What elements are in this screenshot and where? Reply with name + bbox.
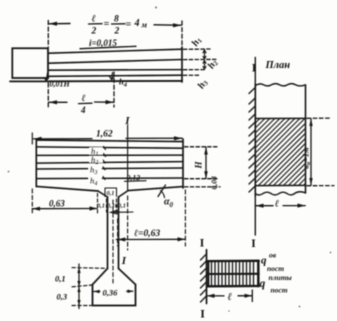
svg-text:0,36: 0,36 <box>103 288 119 298</box>
extension dash x=106.5 <box>106 199 108 212</box>
web left edge <box>107 197 109 269</box>
tick at quarter point <box>110 73 115 80</box>
load band top chord <box>207 260 259 263</box>
svg-text:План: План <box>265 60 291 71</box>
svg-text:h3: h3 <box>196 77 211 91</box>
dimension text l/2 = 8/2 = 4m <box>91 14 148 37</box>
section line I-I lower dashed <box>127 196 129 250</box>
dashed extension right bottom <box>307 185 334 187</box>
chain arrow tick <box>111 210 134 214</box>
dimension l=0.63 (right) <box>116 229 185 242</box>
slab top line <box>36 140 183 142</box>
dashed extension h2 level <box>184 58 217 60</box>
load band right edge <box>257 261 260 286</box>
svg-text:0,01Н: 0,01Н <box>50 80 71 89</box>
tick arrow h1 gap <box>203 50 206 59</box>
svg-text:м: м <box>141 21 148 30</box>
stem dim extension dashes <box>72 267 105 270</box>
svg-text:i=0,015: i=0,015 <box>89 38 117 48</box>
dimension l/2 = 8/2 = 4m line <box>49 22 182 28</box>
left flange underside <box>36 186 98 191</box>
strip right edge <box>305 85 307 193</box>
svg-text:α0: α0 <box>164 197 174 210</box>
web flare right <box>119 269 136 285</box>
support block <box>12 48 48 78</box>
slab layer line 2 <box>36 147 183 148</box>
dimension l/4 line <box>49 100 114 104</box>
slab layer line 4 <box>36 162 183 164</box>
wall hatching ticks <box>249 88 255 193</box>
beam layer line 3 <box>49 69 182 72</box>
svg-text:0,1: 0,1 <box>118 203 126 210</box>
dimension 0.63 (left) <box>32 199 97 211</box>
support baseline <box>10 80 49 82</box>
svg-text:4: 4 <box>134 18 140 29</box>
slab right edge <box>182 139 184 188</box>
svg-text:=: = <box>126 20 132 31</box>
svg-text:1,62: 1,62 <box>96 130 113 140</box>
svg-text:0,63: 0,63 <box>49 199 65 209</box>
dashed extension h3 level <box>184 69 207 71</box>
extension line right (dashed) at x=182 <box>181 21 183 47</box>
slab layer line 3 <box>36 154 183 156</box>
svg-text:ℓ=0,63: ℓ=0,63 <box>134 229 160 239</box>
svg-text:q: q <box>260 278 266 290</box>
svg-text:0,1: 0,1 <box>97 203 105 210</box>
extension dash x=32 lower <box>31 189 33 213</box>
svg-text:I: I <box>200 238 205 250</box>
right flange underside (slope 0.12) <box>128 187 183 191</box>
dashed extension line 4 <box>184 74 201 76</box>
dashed extension h1 level <box>184 48 211 50</box>
strip top break (wavy) <box>255 84 305 86</box>
strip bottom break (wavy) <box>255 192 305 195</box>
beam top line (slope i) <box>49 49 182 53</box>
label 0.36 with arrows <box>94 288 134 298</box>
svg-text:ℓ: ℓ <box>92 14 96 25</box>
wall line <box>206 250 208 304</box>
strip left edge / wall line <box>254 84 256 196</box>
label h4 (section) <box>89 176 102 187</box>
right extension dash mid <box>185 178 219 180</box>
svg-text:0,3: 0,3 <box>57 292 68 302</box>
boxed label 0,1 at web top <box>105 188 117 197</box>
wall hatching ticks <box>201 254 207 302</box>
stem dims 0,1 and 0,3 <box>77 264 80 309</box>
svg-text:I: I <box>200 307 205 321</box>
slab structural top line <box>36 177 183 180</box>
fraction bars <box>89 23 126 25</box>
angle tick alpha0 <box>158 185 166 197</box>
svg-text:I: I <box>121 255 127 267</box>
dimension l (plan) <box>256 198 306 209</box>
svg-text:4: 4 <box>80 105 86 115</box>
dimension 1.62 <box>34 130 183 141</box>
web flare left <box>93 269 108 285</box>
extension line left x=32 <box>31 133 33 144</box>
hatch lines <box>255 119 305 186</box>
l/4 fraction bar <box>79 102 93 104</box>
label q_post^ov <box>261 251 284 274</box>
beam layer line 4 <box>49 75 182 76</box>
svg-text:I: I <box>251 238 256 250</box>
dimension bn=1m line <box>309 119 312 186</box>
load band middle chord <box>207 273 259 275</box>
svg-text:0,08: 0,08 <box>210 176 219 189</box>
tick at support 0.01H <box>44 73 49 81</box>
svg-text:ℓ: ℓ <box>82 94 86 104</box>
hatched zone top boundary <box>255 117 305 119</box>
extension line left (dashed) at x=48 <box>47 21 49 48</box>
svg-text:пост: пост <box>267 264 284 273</box>
svg-text:H: H <box>194 161 204 170</box>
svg-text:h1: h1 <box>190 35 204 48</box>
section line I-I upper <box>127 125 129 190</box>
svg-text:2: 2 <box>91 27 97 37</box>
beam layer line 2 <box>49 60 182 64</box>
svg-text:8: 8 <box>114 15 119 25</box>
beam right end edge <box>181 47 183 82</box>
section line stub bottom <box>254 196 256 235</box>
right extension dash bottom <box>185 186 221 188</box>
svg-text:h4: h4 <box>119 77 128 89</box>
section line stub top <box>254 58 256 85</box>
svg-text:=: = <box>104 19 110 30</box>
slab left edge <box>35 140 37 187</box>
dashed extension x=48 below <box>47 83 49 107</box>
dashed extension right top <box>307 117 330 119</box>
l/4 text <box>80 94 86 115</box>
left haunch <box>98 191 108 197</box>
beam bottom line <box>49 80 182 82</box>
load band left edge <box>207 261 209 286</box>
svg-text:0,1: 0,1 <box>55 274 66 284</box>
web centerline dashed <box>112 200 114 283</box>
web right edge <box>118 197 120 269</box>
layer tick marks <box>103 147 106 180</box>
extension dash x=185.5 <box>184 190 186 246</box>
slab layer line 5 <box>36 168 183 169</box>
hatched zone bottom boundary <box>255 184 305 186</box>
bottom flange <box>93 285 136 306</box>
extension dash x=116.5 <box>116 199 118 212</box>
label h1 (section) <box>90 147 103 158</box>
svg-text:пост: пост <box>271 286 288 295</box>
right extension dash top <box>185 146 219 148</box>
load band bottom chord <box>207 285 259 288</box>
slope label underline <box>80 46 136 48</box>
svg-text:ов: ов <box>269 251 277 260</box>
svg-text:2: 2 <box>114 27 120 37</box>
extension dash x=116 <box>117 219 119 246</box>
load band hatch strokes row 2 <box>212 274 254 286</box>
extension dash x=97.5 <box>97 194 99 214</box>
dimension H line <box>204 147 208 179</box>
tick arrow h2 gap <box>203 61 206 69</box>
svg-text:плиты: плиты <box>269 273 292 282</box>
label q_post^plity <box>260 273 292 295</box>
label h2 (section) <box>90 156 103 167</box>
dashed extension x=114 <box>113 72 115 107</box>
svg-text:ℓ: ℓ <box>228 292 233 303</box>
chain labels 0,1 0,16 0,1 <box>97 203 126 210</box>
svg-text:ℓ: ℓ <box>275 198 279 209</box>
right haunch <box>119 191 129 197</box>
label h3 (section) <box>89 166 102 177</box>
load band hatch strokes row 1 <box>212 261 254 274</box>
dimension l (load) <box>207 290 253 303</box>
svg-text:0,1: 0,1 <box>107 190 115 197</box>
